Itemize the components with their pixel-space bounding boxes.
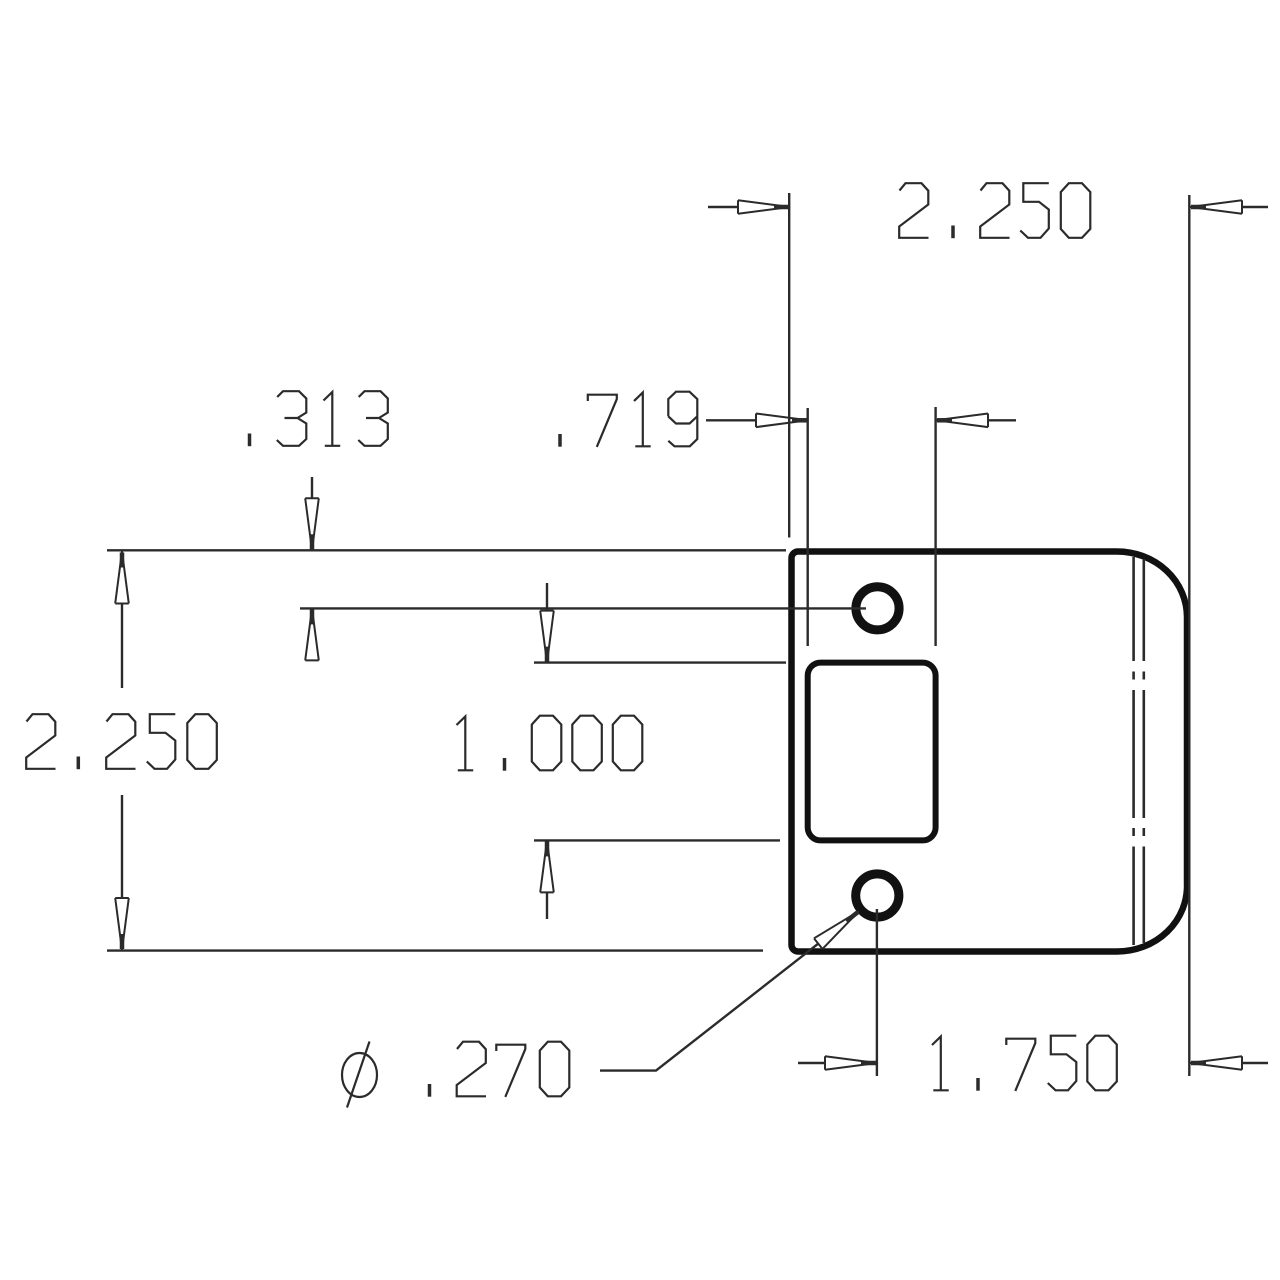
dimension tail .313 top [311,477,313,498]
dimension tail 2.250 top left [708,206,738,208]
arrow .719 left [756,414,808,428]
diameter symbol of .270 label [342,1042,377,1108]
arrow 1.000 top [540,611,554,663]
strike plate outline [792,552,1188,952]
dimension tail .719 right [988,419,1016,421]
dimension tail 1.750 right [1243,1062,1268,1064]
dimension text 1.000 [457,716,643,771]
arrow .719 right [936,414,988,428]
extension line plate right edge [1188,195,1190,1076]
dimension tail 1.000 bottom [546,893,548,919]
leader arrowhead at bottom hole [814,906,863,949]
extension line cutout right edge (top) [934,407,936,646]
dimension text 2.250 left [26,714,217,769]
dimension tail 2.250 top right [1242,206,1268,208]
dimension line 2.250 left lower segment [121,795,123,897]
arrow 1.000 bottom [540,840,554,892]
arrow 2.250 left top [115,552,129,604]
dimension tail 1.000 top [546,583,548,610]
dimension line 2.250 left upper segment [121,604,123,688]
dimension text .313 [250,391,388,446]
dimension tail 1.750 left [798,1062,824,1064]
dimension text .270 [430,1042,570,1097]
leader line diameter .270 [600,943,819,1070]
extension line cutout left edge (top) [807,408,809,646]
dimension text 2.250 top [899,183,1090,238]
bend line right [1143,559,1146,943]
arrow .313 top [305,498,319,550]
arrow .313 bottom [305,608,319,660]
bend line left [1132,557,1135,945]
extension line plate left edge (top) [788,193,790,538]
extension line plate bottom edge (left) [107,949,763,951]
dimension tail .719 left [706,419,756,421]
extension line cutout top edge [534,661,786,663]
bottom screw hole [856,874,899,917]
arrow 1.750 right [1190,1056,1242,1070]
dimension text 1.750 [932,1036,1117,1091]
arrow 1.750 left [825,1056,877,1070]
extension line bottom hole center [876,909,878,1076]
latch cutout [808,663,936,841]
arrow 2.250 top left [738,200,790,214]
arrow 2.250 left bottom [115,898,129,950]
dimension text .719 [560,392,697,447]
top screw hole [856,587,899,630]
extension line top hole center [300,607,866,609]
extension line plate top edge (left) [107,549,786,551]
extension line cutout bottom edge [534,839,780,841]
arrow 2.250 top right [1190,200,1242,214]
